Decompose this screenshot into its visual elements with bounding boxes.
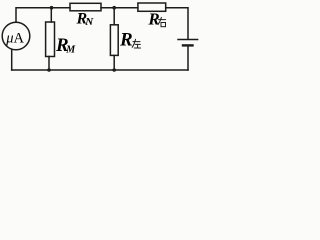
battery E negative plate (short thick) xyxy=(183,44,193,46)
resistor R_N (horizontal box) xyxy=(70,3,101,11)
wire: R_left bottom stub xyxy=(113,55,115,70)
wire: ammeter top stub and top-left corner xyxy=(16,8,70,22)
node D (junction dot bottom of R_left) xyxy=(112,68,116,72)
wire: top wire between R_N and R_right xyxy=(101,7,138,9)
wire: bottom wire xyxy=(12,69,188,71)
label R_right subscript CJK you (right) drawn as strokes xyxy=(158,17,166,26)
wire: R_M bottom stub xyxy=(48,57,50,71)
resistor R_left (vertical box) xyxy=(110,25,118,56)
resistor R_M (vertical box) xyxy=(46,22,55,57)
label R_left subscript CJK zuo (left) drawn as strokes xyxy=(132,39,140,48)
svg-text:R: R xyxy=(147,10,159,29)
svg-text:N: N xyxy=(84,16,94,28)
wire: battery bottom to bottom-right corner xyxy=(187,46,189,70)
svg-text:M: M xyxy=(65,45,76,56)
wire: R_M top stub xyxy=(50,8,52,22)
svg-text:μA: μA xyxy=(5,30,24,46)
wire: R_left top stub xyxy=(113,8,115,25)
ammeter M1 (microammeter circle) xyxy=(2,22,30,50)
node A (junction dot top of R_M) xyxy=(50,6,54,10)
node B (junction dot bottom of R_M) xyxy=(47,68,51,72)
battery E positive plate (long) xyxy=(178,39,198,41)
wire: ammeter bottom stub xyxy=(11,50,13,71)
node C (junction dot top of R_left) xyxy=(112,6,116,10)
svg-text:R: R xyxy=(119,29,133,50)
resistor R_right (horizontal box) xyxy=(138,3,166,11)
wire: top-right corner down to battery xyxy=(166,8,188,39)
